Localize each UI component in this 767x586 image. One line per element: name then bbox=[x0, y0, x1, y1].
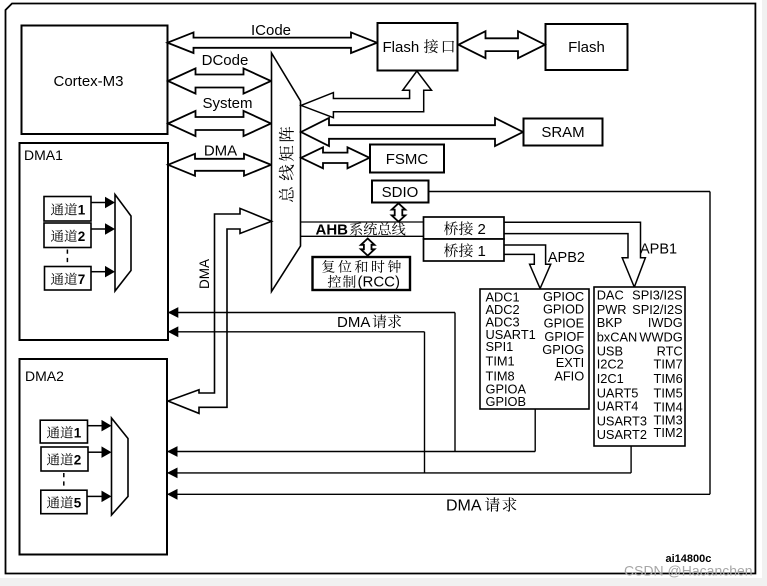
svg-text:System: System bbox=[202, 95, 252, 112]
wire 桥接1 to APB2 arrow bbox=[504, 245, 551, 289]
wire 通道1-mux DMA1 bbox=[91, 202, 106, 204]
block SRAM bbox=[524, 119, 603, 146]
bus arrow DCode bbox=[168, 68, 271, 93]
arrow AHB-RCC bbox=[361, 239, 375, 256]
block 桥接2 bbox=[424, 217, 505, 239]
dashed ellipsis DMA2 channels bbox=[63, 473, 65, 489]
channel box 通道1 of DMA2 bbox=[40, 420, 87, 443]
bus arrow Flash接口-Flash bbox=[459, 31, 546, 58]
wire 桥接2 to APB1 arrow bbox=[504, 222, 645, 287]
wire 通道2-mux DMA1 bbox=[91, 228, 106, 230]
svg-text:Flash: Flash bbox=[383, 39, 420, 56]
svg-text:IWDG: IWDG bbox=[648, 315, 683, 330]
wire right rail down bbox=[709, 192, 711, 495]
svg-text:USART2: USART2 bbox=[597, 427, 647, 442]
svg-text:SRAM: SRAM bbox=[541, 124, 584, 141]
wire 通道1-mux DMA2 bbox=[88, 425, 103, 427]
svg-text:I2C2: I2C2 bbox=[597, 356, 624, 371]
wire net2 horizontal to DMA2 bbox=[167, 472, 631, 474]
svg-text:DMA: DMA bbox=[337, 314, 370, 331]
svg-text:APB1: APB1 bbox=[640, 241, 677, 257]
block Flash 接口 bbox=[378, 23, 458, 71]
svg-text:AFIO: AFIO bbox=[554, 368, 584, 383]
svg-text:UART4: UART4 bbox=[597, 399, 639, 414]
svg-text:7: 7 bbox=[78, 272, 86, 287]
wire DMA request net3 horizontal to DMA2 bbox=[167, 493, 710, 495]
channel box 通道1 of DMA1 bbox=[44, 197, 91, 222]
svg-text:GPIOD: GPIOD bbox=[543, 301, 584, 316]
bent bus arrow bus-matrix to Flash 接口 bbox=[301, 71, 432, 118]
block DMA1 bbox=[20, 143, 169, 340]
block Cortex-M3 bbox=[22, 26, 168, 135]
svg-text:2: 2 bbox=[478, 221, 486, 238]
svg-text:1: 1 bbox=[478, 243, 486, 260]
wire 通道7-mux DMA1 bbox=[91, 271, 106, 273]
bus arrow bus-matrix to FSMC bbox=[301, 147, 370, 168]
block SDIO bbox=[372, 181, 429, 203]
svg-text:2: 2 bbox=[74, 453, 82, 468]
block 桥接1 bbox=[424, 239, 505, 261]
svg-text:1: 1 bbox=[74, 426, 82, 441]
AHB system bus bar bbox=[301, 221, 424, 223]
svg-text:DAC: DAC bbox=[597, 288, 624, 303]
svg-text:DMA1: DMA1 bbox=[24, 147, 63, 163]
svg-text:AHB: AHB bbox=[316, 221, 349, 238]
svg-text:TIM2: TIM2 bbox=[654, 425, 683, 440]
channel box 通道2 of DMA2 bbox=[41, 447, 88, 471]
block APB2 peripherals bbox=[480, 289, 589, 409]
svg-text:TIM7: TIM7 bbox=[654, 356, 683, 371]
channel box 通道5 of DMA2 bbox=[41, 490, 87, 514]
bus matrix 总线矩阵 bbox=[272, 53, 301, 292]
svg-text:Flash: Flash bbox=[568, 39, 605, 56]
svg-text:bxCAN: bxCAN bbox=[597, 330, 638, 345]
dashed ellipsis DMA1 channels bbox=[66, 250, 68, 266]
svg-text:DMA: DMA bbox=[446, 498, 482, 515]
svg-text:1: 1 bbox=[78, 203, 86, 218]
svg-text:DMA2: DMA2 bbox=[25, 368, 64, 384]
svg-text:SDIO: SDIO bbox=[382, 184, 419, 201]
svg-text:WWDG: WWDG bbox=[639, 330, 682, 345]
mux trapezoid DMA2 bbox=[112, 418, 129, 515]
svg-text:DCode: DCode bbox=[202, 52, 249, 69]
mux trapezoid DMA1 bbox=[115, 195, 131, 292]
hollow DMA path bus-matrix to DMA2 bbox=[168, 208, 272, 413]
svg-text:ICode: ICode bbox=[251, 22, 291, 39]
svg-text:TIM5: TIM5 bbox=[654, 386, 683, 401]
svg-text:APB2: APB2 bbox=[548, 250, 585, 266]
wire DMA request net1 horizontal to DMA1 bbox=[168, 312, 455, 314]
wire APB1 box bottom drop bbox=[630, 446, 632, 473]
svg-text:5: 5 bbox=[74, 496, 82, 511]
block DMA2 bbox=[20, 359, 168, 555]
svg-text:GPIOB: GPIOB bbox=[486, 394, 527, 409]
label 总线矩阵 (rotated) bbox=[279, 187, 294, 202]
svg-text:(RCC): (RCC) bbox=[358, 274, 401, 291]
bus arrow DMA (DMA1 to bus matrix) bbox=[168, 154, 271, 176]
block APB1 peripherals bbox=[594, 287, 685, 446]
wire net2 vertical bbox=[424, 332, 426, 473]
svg-text:CSDN @Hacanchen: CSDN @Hacanchen bbox=[624, 563, 753, 579]
bus arrow bus-matrix to SRAM bbox=[301, 118, 523, 146]
block Flash bbox=[546, 24, 628, 70]
block 复位和时钟控制(RCC) bbox=[313, 257, 411, 290]
svg-text:I2C1: I2C1 bbox=[597, 371, 624, 386]
svg-text:BKP: BKP bbox=[597, 315, 623, 330]
wire APB2 box bottom drop bbox=[534, 409, 536, 452]
wire 通道5-mux DMA2 bbox=[87, 495, 102, 497]
svg-text:TIM1: TIM1 bbox=[486, 354, 515, 369]
svg-text:Cortex-M3: Cortex-M3 bbox=[53, 73, 123, 90]
wire SDIO to right rail bbox=[429, 191, 711, 193]
bus arrow ICode bbox=[168, 32, 378, 53]
wire DMA request net2 horizontal to DMA1 bbox=[168, 331, 425, 333]
bus arrow System bbox=[168, 111, 271, 136]
wire net1 vertical bbox=[454, 313, 456, 452]
wire net1 horizontal to DMA2 bbox=[167, 451, 535, 453]
svg-text:SPI3/I2S: SPI3/I2S bbox=[632, 288, 683, 303]
svg-text:DMA: DMA bbox=[204, 143, 237, 160]
channel box 通道7 of DMA1 bbox=[45, 267, 92, 291]
svg-text:FSMC: FSMC bbox=[386, 151, 429, 168]
svg-text:TIM6: TIM6 bbox=[654, 371, 683, 386]
svg-text:2: 2 bbox=[78, 229, 86, 244]
wire 通道2-mux DMA2 bbox=[88, 451, 102, 453]
svg-text:DMA: DMA bbox=[197, 259, 212, 289]
arrow SDIO-AHB bbox=[392, 203, 406, 221]
svg-text:SPI1: SPI1 bbox=[486, 339, 514, 354]
channel box 通道2 of DMA1 bbox=[44, 223, 91, 248]
block FSMC bbox=[370, 145, 444, 173]
